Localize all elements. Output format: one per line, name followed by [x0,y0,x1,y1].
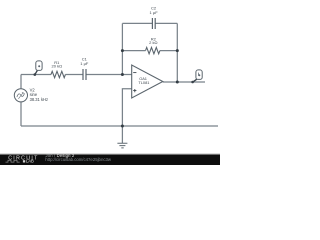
probe flag a (input node) [34,61,43,76]
junction: feedback left at R2 [121,49,124,52]
resistor R1 [51,71,65,77]
capacitor C2 [152,18,155,29]
label C1 1 uF [80,57,89,66]
label V2 sine 38.31 kHz [30,87,48,101]
wire: bottom ground rail [21,125,218,127]
svg-text:http://circuitlab.com/c47e25jb: http://circuitlab.com/c47e25jbnc3w [45,157,112,162]
junction: output node [176,81,179,84]
ground [117,143,127,148]
svg-text:2 kΩ: 2 kΩ [149,40,157,45]
junction: ground rail node [121,125,124,128]
op-amp OA1 TL081 [132,65,163,98]
wire: ground stem [121,126,123,143]
capacitor C1 [83,69,86,80]
svg-text:38.31 kHz: 38.31 kHz [30,97,48,102]
svg-text:1 μF: 1 μF [80,61,89,66]
svg-text:LAB: LAB [26,159,34,164]
wire: V2 top vertical lead [20,75,22,89]
CircuitLab logo [6,156,39,164]
junction: inverting input node [121,73,124,76]
wire: V2 bottom vertical lead [20,102,22,126]
junction: feedback right at R2 [176,49,179,52]
footer bar [0,154,220,165]
probe flag b (output node) [191,70,202,83]
svg-text:1 μF: 1 μF [150,10,159,15]
label C2 1 uF [150,6,159,15]
wire: feedback right vertical [176,23,178,82]
wire: C2 branch right lead [155,22,177,24]
wire: C2 branch left lead [122,22,152,24]
resistor R2 [146,47,160,53]
wire: op-amp output [163,81,205,83]
svg-text:20 kΩ: 20 kΩ [52,64,63,69]
wire: C1 to op-amp inverting input [86,74,132,76]
label R2 2 kOhm [149,36,157,45]
label R1 20 kOhm [52,60,63,69]
wire: R2 right lead [160,50,177,52]
wire: feedback left vertical [121,23,123,74]
wire: R1 to C1 [65,74,83,76]
wire: R2 left lead [122,50,145,52]
wire: V1 top lead to R1 (input net, y=74.5) [21,74,51,76]
voltage source V2 (sine) [14,89,27,102]
svg-text:TL081: TL081 [138,80,149,85]
wire: op-amp noninverting input lead down to rail [122,89,131,126]
